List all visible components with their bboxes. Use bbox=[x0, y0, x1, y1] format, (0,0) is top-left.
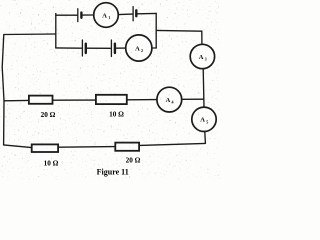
svg-text:10 Ω: 10 Ω bbox=[109, 110, 124, 118]
resistor R1 20 ohm (middle row) bbox=[29, 96, 56, 119]
svg-text:10 Ω: 10 Ω bbox=[44, 159, 59, 167]
wire bbox=[59, 146, 115, 149]
svg-text:A: A bbox=[135, 45, 140, 52]
resistor R4 20 ohm (bottom row) bbox=[115, 143, 140, 165]
resistor R2 10 ohm (middle row) bbox=[96, 95, 127, 119]
svg-text:20 Ω: 20 Ω bbox=[41, 111, 56, 119]
node L: battery-bank left junction wire bbox=[55, 14, 57, 48]
battery cell B1 bbox=[78, 9, 82, 22]
wire bbox=[53, 99, 95, 101]
svg-text:A: A bbox=[199, 54, 204, 61]
svg-text:A: A bbox=[200, 117, 205, 124]
wire bbox=[152, 47, 156, 49]
svg-text:A: A bbox=[102, 12, 107, 19]
wire bbox=[204, 131, 207, 143]
wire: main line from node R to right side bbox=[156, 29, 202, 32]
wire: top branch left segment bbox=[56, 14, 77, 16]
wire: feed from left rail to battery junction bbox=[4, 33, 56, 36]
battery cell B3 bbox=[82, 40, 85, 56]
svg-text:1: 1 bbox=[108, 15, 110, 20]
svg-text:Figure 11: Figure 11 bbox=[97, 168, 129, 177]
svg-text:20 Ω: 20 Ω bbox=[126, 156, 141, 164]
svg-text:A: A bbox=[166, 97, 171, 104]
wire bbox=[127, 99, 157, 101]
node R: battery-bank right junction wire bbox=[155, 13, 157, 48]
wire: right rail upper segment down to resistor junction bbox=[202, 69, 205, 108]
ammeter A5 bbox=[192, 107, 216, 131]
wire bbox=[116, 47, 126, 49]
wire: bottom rail right segment bbox=[140, 143, 206, 145]
wire: left rail bbox=[2, 35, 4, 145]
svg-text:2: 2 bbox=[141, 48, 143, 53]
battery cell B2 bbox=[133, 7, 136, 21]
battery cell B4 bbox=[111, 40, 115, 57]
svg-text:3: 3 bbox=[205, 57, 207, 62]
wire: branch 2 left segment bbox=[56, 47, 82, 49]
wire bbox=[138, 12, 157, 14]
wire: bottom rail left segment bbox=[4, 145, 32, 148]
ammeter A4 bbox=[157, 87, 182, 112]
svg-text:5: 5 bbox=[206, 119, 208, 124]
wire bbox=[83, 14, 94, 16]
wire bbox=[201, 31, 203, 44]
wire bbox=[182, 98, 204, 100]
ammeter A3 bbox=[190, 44, 214, 68]
ammeter A2 bbox=[126, 35, 152, 61]
resistor R3 10 ohm (bottom row) bbox=[32, 144, 59, 167]
svg-text:4: 4 bbox=[172, 100, 174, 105]
wire bbox=[118, 13, 132, 16]
wire: middle row left segment bbox=[4, 99, 28, 101]
ammeter A1 bbox=[94, 3, 119, 28]
wire bbox=[87, 47, 110, 49]
